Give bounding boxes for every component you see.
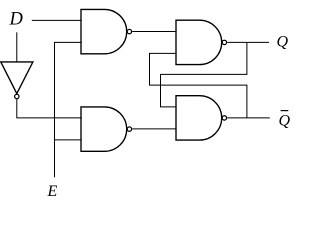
nand gate U3 body [176, 20, 222, 64]
wire Q feedback to gate U4 input 1 [161, 42, 247, 107]
wire D to gate U1 input 1 [32, 19, 82, 21]
node Qbar overline [281, 110, 289, 112]
nand gate U2 body [81, 107, 127, 151]
nand gate U2 bubble [127, 127, 131, 131]
nand gate U4 body [176, 96, 222, 140]
wire U4 output to Qbar [227, 117, 270, 119]
svg-text:Q: Q [277, 33, 289, 50]
wire Qbar feedback to gate U3 input 2 [150, 53, 247, 118]
wire U3 output to Q [227, 41, 269, 43]
nand gate U3 bubble [222, 40, 226, 44]
wire inverter output to gate U2 input 1 [17, 99, 82, 118]
nand gate U4 bubble [222, 116, 226, 120]
wire U1 output to gate U3 input 1 [132, 31, 176, 33]
svg-text:D: D [9, 10, 24, 30]
wire E branch to gate U2 input 2 [55, 139, 82, 141]
wire D down to inverter input [16, 32, 18, 62]
wire U2 output to gate U4 input 2 [132, 128, 176, 130]
inverter U5 (triangle) [1, 62, 33, 94]
nand gate U1 body [81, 9, 127, 53]
wire E up to gate U1 input 2 [55, 42, 82, 177]
nand gate U1 bubble [127, 29, 131, 33]
inverter U5 bubble [15, 94, 19, 98]
svg-text:E: E [47, 183, 58, 200]
svg-text:Q: Q [279, 113, 291, 130]
